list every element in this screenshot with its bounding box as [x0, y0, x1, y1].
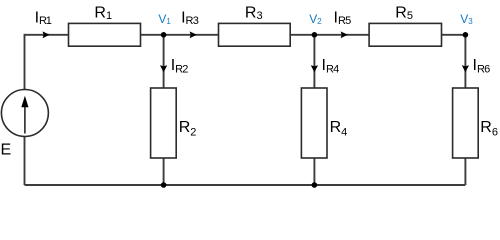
svg-text:IR3: IR3 [181, 9, 199, 27]
svg-text:V2: V2 [309, 12, 322, 26]
svg-text:IR1: IR1 [35, 9, 52, 27]
svg-text:R2: R2 [179, 119, 197, 139]
svg-text:V3: V3 [460, 12, 473, 26]
svg-text:R5: R5 [395, 5, 413, 22]
svg-text:E: E [1, 142, 12, 159]
svg-text:IR2: IR2 [171, 57, 189, 76]
svg-text:R1: R1 [94, 5, 112, 22]
svg-text:IR5: IR5 [334, 9, 352, 27]
svg-text:R4: R4 [330, 119, 348, 139]
svg-text:IR4: IR4 [322, 57, 340, 76]
svg-text:R6: R6 [480, 119, 498, 139]
svg-text:V1: V1 [158, 12, 171, 26]
svg-text:IR6: IR6 [473, 57, 491, 76]
svg-text:R3: R3 [245, 5, 263, 22]
